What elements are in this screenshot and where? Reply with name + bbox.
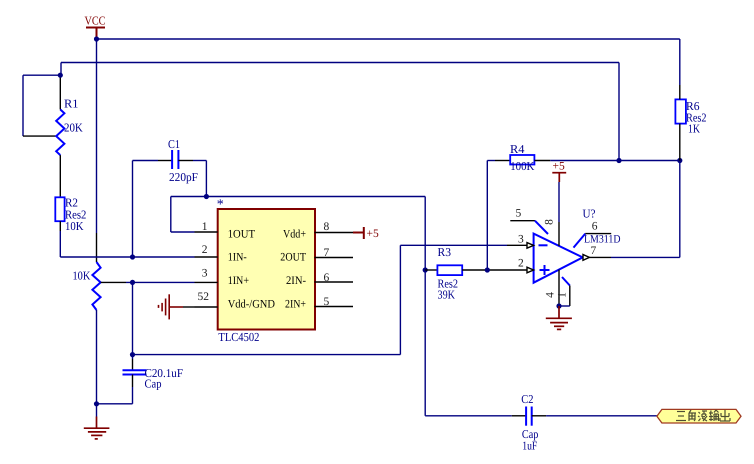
- svg-text:2: 2: [518, 258, 524, 270]
- svg-text:Vdd-/GND: Vdd-/GND: [228, 299, 275, 311]
- svg-text:+5: +5: [367, 228, 379, 240]
- svg-text:7: 7: [324, 247, 330, 259]
- svg-text:5: 5: [324, 296, 330, 308]
- svg-text:2IN-: 2IN-: [286, 275, 306, 287]
- svg-text:2IN+: 2IN+: [285, 299, 306, 311]
- svg-text:6: 6: [592, 221, 598, 233]
- svg-text:TLC4502: TLC4502: [218, 330, 259, 344]
- svg-text:R1: R1: [64, 97, 79, 111]
- svg-text:39K: 39K: [438, 288, 456, 302]
- svg-text:1OUT: 1OUT: [228, 229, 255, 241]
- svg-text:Cap: Cap: [145, 377, 162, 391]
- svg-text:C1: C1: [168, 137, 180, 151]
- svg-text:8: 8: [324, 221, 330, 233]
- svg-text:8: 8: [544, 219, 556, 225]
- svg-text:R4: R4: [510, 142, 525, 156]
- svg-text:52: 52: [198, 291, 210, 303]
- svg-text:1IN-: 1IN-: [228, 252, 247, 264]
- svg-text:3: 3: [202, 268, 208, 280]
- svg-text:4: 4: [545, 292, 557, 298]
- svg-text:10K: 10K: [65, 219, 84, 233]
- svg-text:U?: U?: [583, 207, 596, 221]
- svg-text:VCC: VCC: [85, 14, 106, 28]
- svg-text:1uF: 1uF: [522, 439, 537, 453]
- svg-text:6: 6: [324, 272, 330, 284]
- svg-text:10K: 10K: [73, 269, 91, 283]
- svg-text:*: *: [217, 198, 224, 213]
- svg-text:1IN+: 1IN+: [228, 275, 249, 287]
- svg-text:2: 2: [202, 244, 208, 256]
- svg-text:100K: 100K: [510, 159, 534, 173]
- svg-text:C2: C2: [521, 392, 533, 406]
- svg-text:20K: 20K: [64, 121, 83, 135]
- svg-text:3: 3: [518, 234, 524, 246]
- svg-text:2OUT: 2OUT: [280, 252, 306, 264]
- svg-text:1: 1: [202, 221, 208, 233]
- svg-text:Vdd+: Vdd+: [283, 229, 306, 241]
- svg-text:1K: 1K: [688, 122, 700, 136]
- svg-text:1: 1: [557, 292, 569, 298]
- svg-text:7: 7: [591, 245, 597, 257]
- svg-text:R3: R3: [438, 245, 452, 259]
- svg-text:5: 5: [516, 208, 522, 220]
- svg-text:220pF: 220pF: [169, 170, 198, 184]
- svg-text:LM311D: LM311D: [584, 234, 621, 246]
- svg-text:+5: +5: [553, 161, 565, 173]
